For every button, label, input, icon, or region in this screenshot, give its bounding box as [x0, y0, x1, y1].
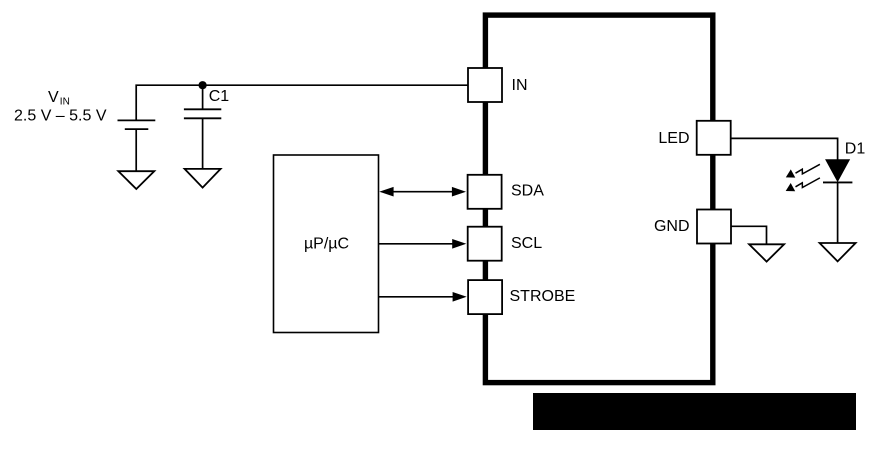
- svg-text:V: V: [48, 89, 59, 106]
- svg-text:C1: C1: [209, 88, 230, 105]
- ground below battery: [118, 171, 154, 189]
- diode D1 LED: [823, 160, 852, 183]
- ground below C1: [185, 169, 221, 188]
- IC U1 main box: [485, 15, 712, 383]
- ground below D1: [820, 243, 856, 261]
- capacitor C1: [184, 85, 221, 169]
- pin LED: [697, 121, 731, 155]
- microcontroller box µP/µC: [274, 155, 379, 333]
- wire top rail from VIN source to IN pin: [136, 85, 467, 120]
- wire LED pin to D1 anode: [732, 138, 838, 159]
- ground below GND pin: [749, 244, 784, 261]
- svg-text:IN: IN: [512, 77, 528, 94]
- svg-text:2.5 V – 5.5 V: 2.5 V – 5.5 V: [14, 107, 107, 124]
- pin GND: [697, 210, 731, 244]
- pin IN: [468, 68, 502, 102]
- pin SCL: [468, 227, 502, 261]
- svg-text:LED: LED: [658, 130, 689, 147]
- wire D1 cathode to ground: [837, 182, 839, 243]
- wire GND pin to ground: [732, 226, 767, 244]
- node junction dot at C1 tap: [199, 81, 207, 89]
- pin SDA: [468, 175, 502, 209]
- wire STROBE arrow: [379, 292, 467, 302]
- LED emission arrow upper: [786, 164, 820, 177]
- pin STROBE: [468, 280, 502, 314]
- svg-text:SDA: SDA: [511, 182, 544, 199]
- wire SCL arrow: [379, 239, 466, 249]
- svg-text:STROBE: STROBE: [510, 288, 576, 305]
- svg-text:GND: GND: [654, 218, 690, 235]
- svg-text:µP/µC: µP/µC: [304, 235, 349, 252]
- wire SDA bidirectional arrow: [379, 187, 466, 197]
- LED emission arrow lower: [786, 178, 820, 191]
- redaction bar (black): [533, 393, 856, 430]
- battery VIN source: [118, 120, 156, 171]
- svg-text:IN: IN: [60, 97, 70, 108]
- svg-text:SCL: SCL: [511, 235, 542, 252]
- svg-text:D1: D1: [845, 141, 866, 158]
